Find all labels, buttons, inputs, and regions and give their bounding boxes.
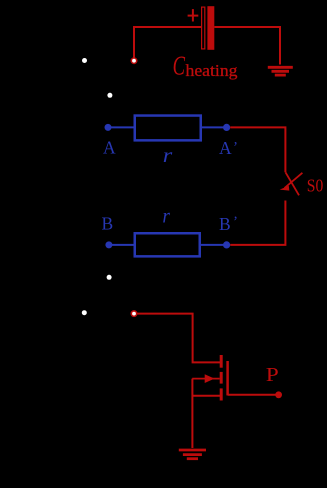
wire: bulk-source tie going down to ground	[191, 379, 193, 448]
capacitor C_heating: plus sign	[188, 9, 199, 21]
wire: switch to B'	[230, 201, 285, 245]
transistor Q1: channel top dash	[220, 355, 223, 368]
transistor Q1: gate bar	[226, 361, 229, 395]
wire: capacitor to top ground	[214, 27, 280, 65]
transistor Q1: channel middle dash	[220, 372, 223, 384]
wire: A' to switch	[230, 127, 285, 172]
node: white terminal dot 2	[107, 93, 112, 98]
node B' (blue dot)	[223, 241, 230, 248]
wire: top-left node up to capacitor	[134, 27, 201, 58]
wire: resistor to B'	[201, 244, 227, 246]
node: open terminal (top heating input)	[131, 58, 136, 63]
svg-text:’: ’	[233, 214, 238, 230]
svg-text:’: ’	[233, 140, 238, 156]
svg-text:C: C	[173, 51, 186, 81]
svg-text:S0: S0	[307, 176, 324, 196]
node: open terminal (bottom gate input)	[131, 311, 136, 316]
ground (top right)	[268, 67, 293, 75]
svg-text:A: A	[103, 138, 116, 158]
wire: gate to node P	[228, 394, 276, 396]
ground (bottom)	[179, 450, 206, 459]
svg-text:A: A	[219, 138, 232, 158]
wire: A to resistor r (top)	[108, 126, 134, 128]
node A (blue dot)	[105, 124, 112, 131]
node P (red dot)	[275, 391, 282, 398]
transistor Q1: source stub	[192, 395, 221, 397]
node: white terminal dot 3	[107, 275, 112, 280]
svg-text:r: r	[162, 206, 170, 228]
svg-text:r: r	[163, 145, 173, 167]
wire: B to resistor r (bottom)	[109, 244, 134, 246]
svg-text:B: B	[102, 213, 114, 233]
svg-text:heating: heating	[186, 61, 239, 80]
capacitor C_heating: right plate (filled)	[207, 6, 214, 50]
resistor r (top, A-A')	[135, 116, 201, 141]
wire: open terminal to MOSFET drain	[137, 314, 221, 363]
svg-text:P: P	[266, 364, 279, 386]
switch S0 arrow	[285, 173, 303, 188]
node: white terminal dot 1	[82, 58, 87, 63]
wire: resistor to A'	[202, 126, 227, 128]
resistor r (bottom, B-B')	[135, 233, 200, 256]
node A' (blue dot)	[223, 124, 230, 131]
switch S0 blade	[286, 172, 300, 195]
node B (blue dot)	[105, 241, 112, 248]
transistor Q1: bulk stub with arrow	[192, 378, 220, 380]
capacitor C_heating: left plate (hollow)	[202, 7, 205, 49]
node: white terminal dot 4	[82, 310, 87, 315]
transistor Q1: channel bottom dash	[220, 388, 223, 400]
svg-text:B: B	[219, 214, 231, 234]
